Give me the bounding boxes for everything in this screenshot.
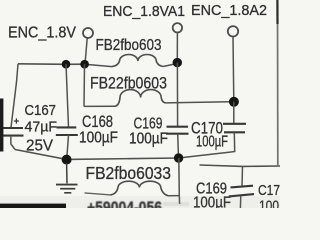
wire FB22 row right segment to node D bbox=[166, 102, 230, 103]
wire vertical node C down to C169 bbox=[176, 63, 178, 127]
wire lower-right bus bbox=[200, 165, 281, 166]
wire top bus left segment bbox=[18, 63, 85, 66]
wire top bus to bead FB1 bbox=[85, 64, 112, 66]
capacitor C167 plus sign bbox=[14, 118, 19, 123]
wire vertical continues below bead row bbox=[178, 196, 180, 204]
svg-text:C167: C167 bbox=[25, 102, 57, 119]
capacitor C170 plates bbox=[223, 124, 246, 133]
node junction dot C (top bus right / ENC_1.8VA1) bbox=[173, 58, 182, 67]
svg-text:100µF: 100µF bbox=[196, 134, 228, 151]
svg-text:+59004-056: +59004-056 bbox=[87, 198, 162, 208]
svg-text:ENC_1.8A2: ENC_1.8A2 bbox=[191, 3, 267, 19]
svg-text:FB2fbo6033: FB2fbo6033 bbox=[86, 163, 172, 183]
node junction dot D (FB22 wire / ENC_1.8A2 column) bbox=[229, 97, 239, 107]
wire vertical from node B down to FB22 row bbox=[83, 64, 86, 106]
svg-text:C168: C168 bbox=[82, 112, 113, 131]
capacitor lower-right plates bbox=[229, 186, 254, 197]
right border vertical line bbox=[277, 0, 279, 166]
wire below lower capacitor bbox=[239, 196, 241, 208]
right border darker top part bbox=[276, 0, 278, 24]
paper background bbox=[0, 0, 280, 208]
scan smudge bottom area bbox=[0, 196, 280, 208]
svg-text:FB2fbo603: FB2fbo603 bbox=[96, 37, 162, 54]
svg-text:100µF: 100µF bbox=[129, 131, 168, 148]
wire bottom bead left stub bbox=[85, 193, 111, 195]
wire C168 bottom to ground node bbox=[67, 135, 69, 159]
svg-text:ENC_1.8VA1: ENC_1.8VA1 bbox=[103, 4, 185, 20]
wire C170 bottom to bus corner bbox=[231, 132, 235, 152]
wire C169 bottom to node E bbox=[177, 134, 180, 158]
node junction dot E (bottom bus / ground) bbox=[62, 155, 72, 165]
node junction dot F (bottom bus / C169) bbox=[174, 153, 183, 162]
ferrite bead FB2fbo603 symbol bbox=[112, 54, 163, 66]
wire bottom bead right to vertical bbox=[168, 195, 179, 197]
wire node F down to bottom bead row bbox=[178, 158, 181, 196]
scan smudge faint marks right of clipped text bbox=[163, 202, 189, 206]
wire stem from ENC_1.8VA1 terminal down to node bbox=[176, 33, 178, 63]
capacitor C167 plates bbox=[1, 128, 24, 136]
terminal circle ENC_1.8VA1 bbox=[173, 23, 182, 32]
wire left drop to C167 bbox=[11, 64, 18, 128]
node junction dot B (top bus / ENC_1.8V stem) bbox=[80, 60, 89, 69]
svg-text:47µF: 47µF bbox=[25, 119, 58, 136]
scan artifact left edge bar bbox=[0, 99, 3, 152]
ferrite bead FB2fbo6033 symbol bbox=[111, 181, 168, 196]
terminal circle ENC_1.8A2 bbox=[228, 26, 238, 36]
scan artifact bottom-left black band bbox=[0, 204, 66, 208]
wire C170 top from node D bbox=[233, 102, 235, 124]
svg-text:ENC_1.8V: ENC_1.8V bbox=[8, 25, 76, 42]
wire bottom bus bbox=[15, 150, 231, 160]
capacitor C168 plates bbox=[56, 127, 78, 135]
ferrite bead FB22fb0603 symbol bbox=[115, 90, 166, 107]
wire stem from ENC_1.8V terminal to node bbox=[85, 38, 87, 64]
wire C167 bottom down to bus bbox=[11, 136, 15, 150]
wire stem from ENC_1.8A2 terminal down to node bbox=[232, 37, 235, 102]
terminal circle ENC_1.8V bbox=[83, 28, 93, 38]
capacitor C168 wire from node A bbox=[66, 64, 69, 127]
capacitor C169 plates bbox=[166, 127, 189, 134]
wire drop to bottom capacitor bbox=[241, 166, 244, 186]
node junction dot A (top bus / C168) bbox=[62, 60, 71, 69]
wire bead FB2fbo603 right to node bbox=[163, 63, 177, 66]
wire FB22 row left segment bbox=[84, 105, 115, 107]
svg-text:100µF: 100µF bbox=[79, 130, 118, 147]
ground symbol bbox=[56, 163, 78, 193]
